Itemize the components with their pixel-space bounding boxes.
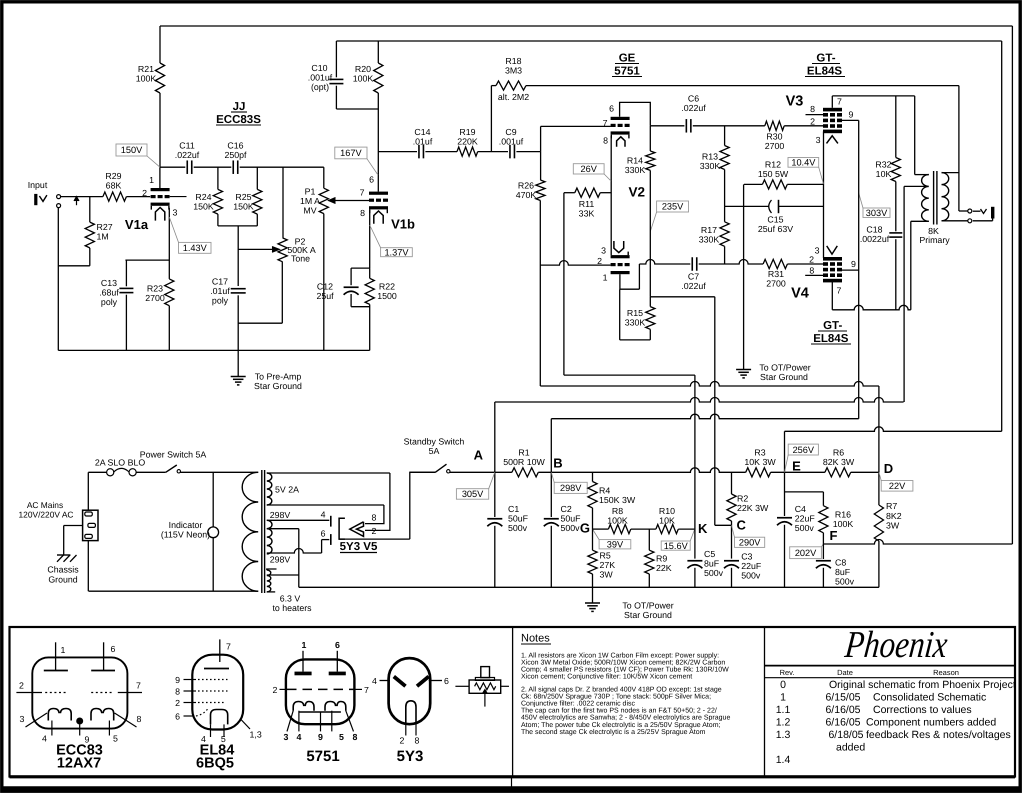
resistor R23 2700 xyxy=(165,279,174,306)
svg-text:Consolidated Schematic: Consolidated Schematic xyxy=(873,692,986,704)
svg-text:202V: 202V xyxy=(795,548,817,558)
voltage box 15.6V xyxy=(661,541,690,550)
svg-text:9: 9 xyxy=(175,675,180,685)
svg-text:6/16/05: 6/16/05 xyxy=(825,704,860,716)
svg-text:2: 2 xyxy=(175,698,180,708)
wire R20 node down to V1b plate xyxy=(377,109,379,192)
capacitor C18 .0022uf xyxy=(889,232,902,234)
wire common cathode V3 V4 xyxy=(823,131,825,258)
svg-text:R11: R11 xyxy=(579,199,595,209)
svg-text:C1: C1 xyxy=(508,504,519,514)
speaker jack tip circle xyxy=(968,209,972,213)
svg-text:500v: 500v xyxy=(561,523,581,533)
rectifier 5Y3 V5 plate pin6 xyxy=(330,534,332,545)
cathode hook V2 upper xyxy=(617,137,625,147)
svg-text:C16: C16 xyxy=(227,141,243,151)
resistor R6 82K 3W xyxy=(825,468,851,477)
cathode hook V1b xyxy=(374,211,383,224)
voltage box 235V xyxy=(657,201,689,212)
svg-text:8: 8 xyxy=(372,513,377,523)
wire C12/R22 top xyxy=(351,267,370,269)
svg-text:100K: 100K xyxy=(136,74,157,84)
svg-text:poly: poly xyxy=(101,297,118,307)
resistor R16 100K xyxy=(822,492,824,506)
capacitor C3 22uF 500v xyxy=(724,560,739,562)
pinout 5751 plate bars xyxy=(295,672,312,676)
ground to pre-amp star ground xyxy=(237,350,239,376)
potentiometer P2 500K A Tone xyxy=(282,167,284,238)
svg-text:R23: R23 xyxy=(147,284,163,294)
svg-text:3: 3 xyxy=(173,208,178,218)
cathode hook V2 lower xyxy=(614,241,624,253)
svg-text:C5: C5 xyxy=(704,549,715,559)
wire plate node to C11 xyxy=(160,166,185,168)
svg-text:8: 8 xyxy=(353,732,358,742)
resistor R9 22K xyxy=(648,529,650,550)
svg-text:1: 1 xyxy=(302,640,307,650)
svg-text:5Y3 V5: 5Y3 V5 xyxy=(340,541,378,553)
divider title block xyxy=(764,627,766,777)
svg-text:R10: R10 xyxy=(659,506,675,516)
svg-text:2700: 2700 xyxy=(145,293,165,303)
svg-text:27K: 27K xyxy=(600,560,616,570)
svg-text:5A: 5A xyxy=(429,446,440,456)
svg-text:Conjunctive filter: .0022 cera: Conjunctive filter: .0022 ceramic disc xyxy=(521,700,635,708)
svg-text:15.6V: 15.6V xyxy=(664,541,689,551)
svg-text:Notes: Notes xyxy=(521,633,550,645)
svg-text:MV: MV xyxy=(303,206,316,216)
svg-text:R27: R27 xyxy=(97,222,113,232)
wire V1a plate to junction xyxy=(159,167,161,188)
svg-text:10K: 10K xyxy=(659,516,675,526)
svg-text:8: 8 xyxy=(175,687,180,697)
voltage box 150V xyxy=(116,144,147,156)
svg-text:3: 3 xyxy=(20,714,25,724)
wire bus3 node B to screen rail xyxy=(551,414,858,419)
wire main B+ rail xyxy=(410,471,436,473)
svg-text:.0022uf: .0022uf xyxy=(860,234,890,244)
svg-text:Original schematic from Phoeni: Original schematic from Phoenix Project xyxy=(829,679,1016,691)
svg-text:1: 1 xyxy=(780,692,786,704)
voltage box 202V xyxy=(790,547,822,559)
resistor R27 1M xyxy=(89,197,91,223)
svg-text:Phoenix: Phoenix xyxy=(842,624,949,666)
ground OT power star ground upper xyxy=(736,369,751,371)
triode V1a xyxy=(151,188,170,191)
svg-text:500v: 500v xyxy=(741,571,761,581)
svg-text:5: 5 xyxy=(113,734,118,744)
svg-text:1.3: 1.3 xyxy=(776,729,791,741)
svg-text:1: 1 xyxy=(61,645,66,655)
wire V2 lower grid xyxy=(540,261,610,266)
svg-text:Star Ground: Star Ground xyxy=(760,372,808,382)
svg-text:A: A xyxy=(474,448,484,463)
svg-text:1M A: 1M A xyxy=(300,196,320,206)
svg-text:6: 6 xyxy=(609,104,614,114)
wire feedback to output jack xyxy=(526,85,959,87)
svg-text:2: 2 xyxy=(810,117,815,127)
svg-text:6/16/05: 6/16/05 xyxy=(825,717,860,729)
svg-text:V1a: V1a xyxy=(125,217,149,232)
svg-text:8: 8 xyxy=(603,136,608,146)
wire V3 plate pin7 xyxy=(831,96,833,108)
svg-text:R24: R24 xyxy=(195,192,211,202)
svg-text:Atom; The power tube Ck elect: Atom; The power tube Ck electrolytic is … xyxy=(521,721,721,729)
wire switch to transformer xyxy=(181,471,259,473)
svg-text:.001uf: .001uf xyxy=(308,73,333,83)
svg-text:1.1: 1.1 xyxy=(776,704,791,716)
pinout ECC83 cathode left xyxy=(48,709,71,721)
svg-text:9: 9 xyxy=(851,259,856,269)
voltage box 290V xyxy=(735,537,765,547)
wire V2 upper plate jog xyxy=(620,102,651,125)
wire C12/R22 bottom xyxy=(351,306,370,308)
svg-text:450V electrolytics are Sanwha;: 450V electrolytics are Sanwha; 2 - 8/450… xyxy=(521,714,730,722)
svg-text:C7: C7 xyxy=(688,272,699,282)
wire input to R29 xyxy=(61,196,103,198)
svg-text:R1: R1 xyxy=(518,448,529,458)
pinout EL84 cathode xyxy=(211,710,228,725)
svg-text:To OT/Power: To OT/Power xyxy=(759,363,810,373)
wire bias ground drop xyxy=(743,184,745,369)
resistor R20 100K xyxy=(377,41,379,63)
pinout ECC83 pin6 lead xyxy=(103,642,105,670)
svg-text:303V: 303V xyxy=(866,208,888,218)
svg-text:150K: 150K xyxy=(193,202,214,212)
wire AC neutral down xyxy=(87,541,89,592)
svg-text:22uF: 22uF xyxy=(741,561,762,571)
wire node E to top supply xyxy=(784,431,786,472)
svg-text:22V: 22V xyxy=(889,481,906,491)
svg-text:305V: 305V xyxy=(462,489,484,499)
svg-text:P1: P1 xyxy=(305,187,316,197)
svg-text:5751: 5751 xyxy=(614,66,640,78)
svg-text:6: 6 xyxy=(321,529,326,539)
svg-text:2: 2 xyxy=(400,736,405,746)
bottom panel box xyxy=(10,627,1016,777)
svg-text:R21: R21 xyxy=(138,64,154,74)
resistor R26 470K xyxy=(540,152,542,180)
triode V2 lower inverted xyxy=(611,255,630,258)
svg-text:1M: 1M xyxy=(97,232,109,242)
voltage box 1.43V xyxy=(179,242,212,253)
svg-text:2A SLO BLO: 2A SLO BLO xyxy=(95,458,146,468)
svg-text:Reason: Reason xyxy=(933,668,959,677)
svg-text:Xicon cement; Conjunctive filt: Xicon cement; Conjunctive filter: 10K/5W… xyxy=(521,673,692,681)
capacitor C12 25uf xyxy=(350,268,352,285)
svg-text:5V 2A: 5V 2A xyxy=(275,485,299,495)
svg-text:500v: 500v xyxy=(835,577,855,587)
pinout ECC83 bottom leads xyxy=(51,721,53,736)
pinout 5751 cathode left xyxy=(293,702,314,711)
svg-text:1.2: 1.2 xyxy=(776,717,791,729)
voltage box 10.4V xyxy=(788,158,819,168)
svg-text:7: 7 xyxy=(360,188,365,198)
wire C7 node xyxy=(639,260,690,265)
resistor R14 330K xyxy=(649,126,651,151)
svg-text:500v: 500v xyxy=(704,568,724,578)
svg-text:22uF: 22uF xyxy=(795,514,816,524)
svg-text:R29: R29 xyxy=(105,171,121,181)
capacitor C17 .01uf poly xyxy=(231,288,246,290)
wire B+ top rail y26 from R21 to right edge xyxy=(160,25,1012,27)
wire R27 bottom to sleeve line xyxy=(58,265,90,267)
wire V4 plate net xyxy=(832,305,911,310)
wire C16 to P1 top xyxy=(240,166,324,168)
svg-text:500v: 500v xyxy=(795,523,815,533)
wire V3 pin8 stub xyxy=(806,114,824,116)
voltage box 26V xyxy=(573,164,604,174)
svg-text:290V: 290V xyxy=(739,538,761,548)
capacitor C10 .001uf (opt) xyxy=(335,41,337,77)
svg-text:50uF: 50uF xyxy=(561,514,582,524)
jack sleeve contact xyxy=(57,204,61,208)
wire bus2 node A to center tap xyxy=(495,398,904,403)
svg-text:8: 8 xyxy=(360,208,365,218)
svg-text:82K 3W: 82K 3W xyxy=(823,457,855,467)
svg-text:33K: 33K xyxy=(579,209,595,219)
wire B+ second rail y41 from C10 box to right edge xyxy=(336,40,1001,42)
rectifier 5Y3 V5 plate pin4 xyxy=(330,516,332,527)
voltage box 256V xyxy=(788,444,818,455)
svg-text:7: 7 xyxy=(136,681,141,691)
pentode V4 xyxy=(823,257,842,261)
svg-text:R12: R12 xyxy=(765,160,781,170)
svg-text:1. All resistors are Xicon 1W: 1. All resistors are Xicon 1W Carbon Fil… xyxy=(521,651,719,659)
svg-text:R14: R14 xyxy=(627,156,643,166)
svg-text:Corrections to values: Corrections to values xyxy=(873,704,972,716)
wire P1 wiper to V1b grid xyxy=(329,198,336,204)
svg-text:poly: poly xyxy=(212,296,229,306)
svg-text:Ground: Ground xyxy=(48,575,77,585)
pinout EL84 pin13 lead xyxy=(241,719,251,729)
svg-text:R2: R2 xyxy=(737,494,748,504)
svg-text:0: 0 xyxy=(780,679,786,691)
svg-text:Primary: Primary xyxy=(919,235,950,245)
svg-text:C8: C8 xyxy=(835,558,846,568)
svg-text:2: 2 xyxy=(809,254,814,264)
svg-text:1500: 1500 xyxy=(377,291,397,301)
wire node K vertical xyxy=(694,375,696,558)
trimmer potentiometer symbol xyxy=(455,685,469,687)
wire 6.3V tap to ground rail xyxy=(267,574,299,576)
svg-text:.001uf: .001uf xyxy=(499,137,524,147)
svg-text:4: 4 xyxy=(42,734,47,744)
chassis ground symbol xyxy=(57,554,70,556)
wire R19 to C9 with R18 tap xyxy=(478,151,508,153)
pinout ECC83 outline xyxy=(32,657,127,728)
transformer PT HT winding xyxy=(267,520,272,554)
wire OT primary bottom to V4 plate xyxy=(911,220,929,222)
wire V3 pin9 to screen rail xyxy=(842,119,859,121)
svg-text:3: 3 xyxy=(601,246,606,256)
svg-text:7: 7 xyxy=(603,118,608,128)
svg-text:Chassis: Chassis xyxy=(47,565,79,575)
svg-text:6/15/05: 6/15/05 xyxy=(825,692,860,704)
svg-text:22K: 22K xyxy=(656,563,672,573)
svg-text:R6: R6 xyxy=(833,448,844,458)
svg-text:R9: R9 xyxy=(656,554,667,564)
svg-text:Comp; 4 smaller PS resistors (: Comp; 4 smaller PS resistors (1W CF); Po… xyxy=(521,666,729,674)
svg-text:2: 2 xyxy=(273,685,278,695)
svg-text:6.3 V: 6.3 V xyxy=(280,594,301,604)
capacitor C14 .01uf xyxy=(418,145,420,159)
resistor R30 2700 xyxy=(765,121,784,130)
svg-text:R26: R26 xyxy=(518,181,534,191)
svg-text:GT-: GT- xyxy=(823,320,842,332)
triode V2 upper xyxy=(611,117,630,120)
svg-text:8: 8 xyxy=(809,266,814,276)
wire 6.3V top stub xyxy=(267,569,277,570)
wire secondary bottom to jack xyxy=(942,220,968,222)
svg-text:330K: 330K xyxy=(625,165,646,175)
wire rail R6 to node D xyxy=(851,471,879,473)
svg-text:Tone: Tone xyxy=(291,254,310,264)
svg-text:F: F xyxy=(830,528,838,543)
wire R8 to R10 xyxy=(631,528,656,530)
svg-text:Star Ground: Star Ground xyxy=(254,381,302,391)
svg-text:9: 9 xyxy=(849,110,854,120)
svg-text:C14: C14 xyxy=(414,127,430,137)
svg-text:3W: 3W xyxy=(600,570,614,580)
svg-text:235V: 235V xyxy=(662,202,684,212)
svg-text:6: 6 xyxy=(444,676,449,686)
svg-text:to heaters: to heaters xyxy=(272,603,312,613)
svg-text:C18: C18 xyxy=(866,225,882,235)
pinout 5751 outline xyxy=(286,659,355,724)
svg-text:.01uf: .01uf xyxy=(413,137,433,147)
svg-text:100K: 100K xyxy=(607,516,628,526)
resistor R15 330K xyxy=(649,297,651,307)
cathode hook V3 xyxy=(827,136,838,144)
svg-text:9: 9 xyxy=(318,732,323,742)
wire R14/R15 node to C supply xyxy=(650,296,715,298)
svg-text:C2: C2 xyxy=(561,504,572,514)
svg-text:220K: 220K xyxy=(457,137,478,147)
wire mains top to fuse xyxy=(88,471,107,473)
svg-text:2: 2 xyxy=(19,681,24,691)
svg-text:B: B xyxy=(553,456,562,471)
svg-text:(115V Neon): (115V Neon) xyxy=(161,530,210,540)
wire preamp ground bus xyxy=(58,349,369,351)
svg-text:6BQ5: 6BQ5 xyxy=(196,756,234,772)
svg-text:2. All signal caps Dr. Z brand: 2. All signal caps Dr. Z branded 400V 41… xyxy=(521,685,722,693)
wire 5Y3 output to standby switch xyxy=(339,472,435,539)
wire primary bottom xyxy=(89,590,259,592)
svg-text:C17: C17 xyxy=(212,277,228,287)
svg-text:(opt): (opt) xyxy=(311,82,329,92)
wire C14 to R19 xyxy=(425,151,457,153)
svg-text:C4: C4 xyxy=(795,504,806,514)
svg-text:C9: C9 xyxy=(505,127,516,137)
indicator neon lamp xyxy=(212,472,214,527)
svg-text:R25: R25 xyxy=(235,192,251,202)
svg-text:4: 4 xyxy=(297,732,302,742)
wire tone wiper xyxy=(238,248,272,250)
svg-text:39V: 39V xyxy=(607,539,624,549)
svg-text:R22: R22 xyxy=(379,282,395,292)
resistor R5 27K 3W xyxy=(592,529,594,550)
svg-text:68K: 68K xyxy=(106,181,122,191)
svg-text:Ck: 68n/250V Sprague 730P ; T: Ck: 68n/250V Sprague 730P ; Tone stack: … xyxy=(521,692,711,700)
pinout 5751 bottom leads xyxy=(287,711,293,732)
speaker jack symbol xyxy=(973,210,981,212)
rectifier 5Y3 envelope bracket xyxy=(339,518,345,539)
svg-text:150K: 150K xyxy=(233,202,254,212)
wire grid stub right V1a xyxy=(170,196,187,198)
pentode V3 xyxy=(823,108,842,112)
svg-text:To Pre-Amp: To Pre-Amp xyxy=(255,372,302,382)
wire R29 to grid V1a xyxy=(126,196,150,198)
wire to V2 top grid xyxy=(541,125,611,127)
svg-text:E: E xyxy=(792,459,801,474)
wire node E down C4 xyxy=(784,472,786,516)
voltage box 305V xyxy=(456,489,488,500)
capacitor C15 25uf 63V xyxy=(769,200,772,213)
pinout 5751 cathode bar xyxy=(299,711,341,713)
wire R31 to V4 grid xyxy=(787,263,823,265)
resistor R18 3M3 feedback xyxy=(490,86,492,152)
svg-text:6: 6 xyxy=(111,644,116,654)
svg-text:150V: 150V xyxy=(121,145,143,155)
svg-text:500v: 500v xyxy=(508,523,528,533)
svg-text:298V: 298V xyxy=(560,483,582,493)
svg-text:G: G xyxy=(580,521,590,536)
wire 5V loop to pin8 xyxy=(365,505,384,524)
voltage box 1.37V xyxy=(381,248,413,257)
svg-text:8uF: 8uF xyxy=(704,559,720,569)
svg-text:330K: 330K xyxy=(700,161,721,171)
speaker jack sleeve circle xyxy=(968,219,972,223)
wire node F to right riser xyxy=(823,540,1012,545)
wire HT center tap down xyxy=(298,529,300,588)
svg-text:C10: C10 xyxy=(311,63,327,73)
svg-text:10.4V: 10.4V xyxy=(791,158,816,168)
resistor R29 68K xyxy=(103,192,127,201)
capacitor C4 22uF 500v xyxy=(777,517,792,519)
AC connector xyxy=(83,510,98,540)
svg-text:.022uf: .022uf xyxy=(681,281,706,291)
resistor R31 2700 xyxy=(763,259,787,268)
svg-text:150K 3W: 150K 3W xyxy=(599,495,636,505)
pinout 5751 cathode right xyxy=(325,702,346,711)
input jack xyxy=(34,194,37,205)
divider notes left xyxy=(512,627,514,777)
wire C10/R20 box bottom xyxy=(336,108,378,110)
resistor R22 1500 xyxy=(369,268,371,278)
svg-text:Star Ground: Star Ground xyxy=(624,610,672,620)
svg-text:C15: C15 xyxy=(767,215,783,225)
cathode hook V1a xyxy=(155,208,164,221)
pinout EL84 outline xyxy=(192,655,243,730)
capacitor C7 .022uf xyxy=(691,257,693,271)
triode V1b xyxy=(369,192,388,195)
svg-text:298V: 298V xyxy=(270,555,291,565)
wire HT tap xyxy=(267,528,299,530)
svg-text:C3: C3 xyxy=(741,552,752,562)
svg-text:8K2: 8K2 xyxy=(886,511,902,521)
wire AC earth xyxy=(64,525,83,527)
svg-text:10K 3W: 10K 3W xyxy=(744,457,776,467)
cathode hook V4 xyxy=(827,246,838,254)
svg-text:5751: 5751 xyxy=(306,748,339,765)
jack switch arrow xyxy=(76,199,78,205)
resistor R2 22K 3W xyxy=(731,472,733,494)
wire PS bottom rail xyxy=(299,586,879,588)
transformer PT primary winding xyxy=(242,472,258,591)
svg-text:3W: 3W xyxy=(886,521,900,531)
svg-text:298V: 298V xyxy=(270,510,291,520)
